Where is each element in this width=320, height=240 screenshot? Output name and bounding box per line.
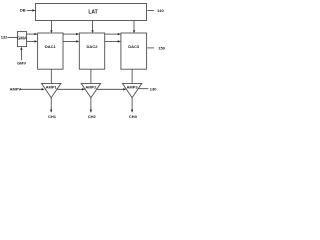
svg-text:150: 150 <box>158 46 165 51</box>
svg-text:130: 130 <box>150 87 157 92</box>
svg-text:AMP3: AMP3 <box>127 85 139 90</box>
svg-text:CH2: CH2 <box>88 114 97 119</box>
svg-text:GMA: GMA <box>17 36 27 41</box>
svg-text:CH3: CH3 <box>129 114 138 119</box>
svg-text:140: 140 <box>157 8 164 13</box>
svg-text:AMP2: AMP2 <box>85 85 97 90</box>
svg-text:DAC3: DAC3 <box>128 44 140 49</box>
svg-text:GMV: GMV <box>17 61 26 66</box>
svg-text:AMPV: AMPV <box>10 87 22 92</box>
svg-text:DAC2: DAC2 <box>87 44 99 49</box>
svg-text:LAT: LAT <box>88 10 97 16</box>
svg-text:CH1: CH1 <box>48 114 57 119</box>
svg-text:DAC1: DAC1 <box>45 44 57 49</box>
svg-text:DB: DB <box>20 8 26 13</box>
svg-text:AMP1: AMP1 <box>46 85 58 90</box>
svg-text:132: 132 <box>1 35 8 40</box>
